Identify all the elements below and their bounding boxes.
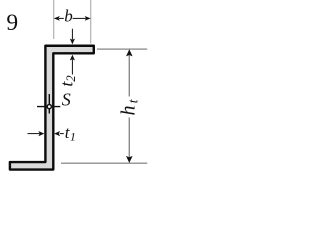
shear center circle (47, 105, 51, 109)
dimension t2 upper shaft (71, 29, 73, 40)
dimension h_t line lower segment (128, 118, 130, 159)
dimension t2 lower arrowhead (points up) (70, 55, 75, 61)
svg-text:b: b (64, 7, 73, 26)
dimension h_t arrowhead top (points up) (126, 49, 133, 56)
Z-section profile (10, 46, 94, 170)
dimension b arrowhead left (54, 16, 60, 21)
extension line h_t bottom (61, 162, 147, 164)
extension line b left (53, 0, 55, 39)
svg-text:S: S (62, 90, 71, 110)
dimension b shaft right (73, 17, 86, 19)
dimension t2 lower shaft (71, 60, 73, 75)
shear center crosshair horizontal (37, 106, 60, 108)
dimension t1 right arrowhead (points left) (54, 131, 60, 136)
dimension b shaft left (59, 17, 64, 19)
dimension h_t line upper segment (128, 54, 130, 97)
dimension t1 right shaft (60, 133, 64, 135)
shear center crosshair vertical (48, 94, 50, 114)
extension line h_t top (97, 48, 147, 50)
dimension t2 upper arrowhead (points down) (70, 39, 75, 45)
dimension h_t arrowhead bottom (points down) (126, 156, 133, 163)
extension line b right (90, 0, 92, 44)
dimension b arrowhead right (85, 16, 91, 21)
dimension t1 left arrowhead (points right) (38, 131, 44, 136)
svg-text:9: 9 (6, 10, 18, 36)
dimension t1 left shaft (28, 133, 40, 135)
